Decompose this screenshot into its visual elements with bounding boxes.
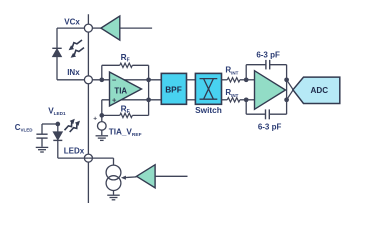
- photodiode: [52, 47, 61, 49]
- junction V_LED node: [55, 122, 60, 127]
- wire photodiode branch vertical lower: [56, 56, 58, 79]
- wire switch to RINT top: [222, 79, 228, 81]
- block BPF: [161, 73, 186, 104]
- ground of current source: [107, 194, 120, 196]
- capacitor 6.3pF top: [265, 60, 267, 70]
- wire photodiode branch vertical upper: [56, 28, 58, 48]
- op-amp TIA: [110, 72, 142, 106]
- junction integrator bottom left: [244, 97, 249, 102]
- wire RINT bottom to integrator: [240, 99, 255, 101]
- wire VCx node to photodiode branch: [57, 27, 88, 29]
- junction at TIA_VREF node: [99, 113, 104, 118]
- svg-text:BPF: BPF: [165, 85, 182, 95]
- svg-text:TIA: TIA: [114, 86, 127, 95]
- wire bottom cap loop horizontal: [246, 113, 265, 115]
- ground of TIA_VREF: [96, 135, 109, 137]
- wire buffer A2 output arrow to current source: [121, 176, 126, 180]
- wire top cap loop left vertical: [245, 65, 247, 80]
- light arrows out of LED: [65, 122, 72, 130]
- wire C_VLED vertical: [41, 124, 43, 134]
- svg-text:ADC: ADC: [311, 86, 329, 95]
- current source I_LED: [106, 165, 121, 180]
- junction integrator top right: [284, 77, 289, 82]
- wire integrator to ADC cross bottom: [287, 90, 294, 100]
- wire photodiode branch to INx node: [57, 79, 88, 81]
- svg-text:+: +: [93, 116, 97, 123]
- node LEDx: [84, 154, 92, 162]
- svg-text:VCx: VCx: [64, 17, 80, 26]
- ground of C_VLED: [36, 146, 49, 148]
- resistor RF top: [120, 63, 133, 67]
- wire LEDx node to current source: [88, 157, 113, 159]
- wire BPF to switch top: [187, 79, 196, 81]
- buffer A2 (LED driver): [137, 165, 156, 188]
- junction at TIA inverting input: [99, 77, 104, 82]
- buffer A1 (VCx driver): [101, 16, 120, 40]
- wire TIA output vertical: [148, 65, 150, 115]
- capacitor 6.3pF bottom: [265, 109, 267, 119]
- wire TIA noninverting rail to BPF bottom rail: [102, 99, 162, 101]
- op-amp integrator: [255, 71, 286, 110]
- node VCx: [84, 24, 92, 32]
- wire INx node to TIA inverting input / BPF top rail: [88, 79, 161, 81]
- svg-text:6-3 pF: 6-3 pF: [258, 123, 282, 132]
- svg-text:LEDx: LEDx: [64, 146, 85, 155]
- wire C_VLED to ground: [41, 138, 43, 147]
- wire buffer A2 input line: [155, 175, 187, 177]
- junction at TIA output bottom tap: [146, 97, 151, 102]
- junction integrator top left: [244, 77, 249, 82]
- wire buffer A1 output to the right: [120, 27, 152, 29]
- wire integrator to ADC cross top: [287, 80, 294, 90]
- junction at TIA output top tap: [146, 77, 151, 82]
- wire main vertical bus (VCx/INx/LEDx column): [87, 14, 89, 203]
- block Switch: [195, 73, 221, 104]
- svg-text:−: −: [112, 76, 117, 85]
- resistor RINT top: [227, 78, 240, 82]
- wire VCx node to buffer A1 input: [88, 27, 101, 29]
- resistor RINT bottom: [227, 98, 240, 102]
- wire TIA top feedback horizontal: [102, 64, 120, 66]
- svg-text:INx: INx: [67, 68, 80, 77]
- svg-text:6-3 pF: 6-3 pF: [256, 50, 280, 59]
- svg-text:Switch: Switch: [195, 105, 222, 115]
- junction integrator bottom right: [284, 97, 289, 102]
- light arrows into photodiode: [72, 40, 82, 47]
- wire switch to RINT bottom: [222, 99, 228, 101]
- wire V_LED node to LED: [57, 124, 59, 132]
- wire TIA bottom feedback horizontal: [102, 114, 120, 116]
- LED D1: [53, 132, 62, 140]
- wire integrator output vertical: [286, 65, 288, 115]
- capacitor C_VLED: [36, 133, 47, 135]
- wire bottom cap loop left vertical: [245, 100, 247, 114]
- wire top cap loop horizontal: [246, 64, 266, 66]
- wire TIA top feedback left vertical: [101, 65, 103, 80]
- resistor RF bottom: [120, 113, 133, 117]
- node INx: [84, 76, 92, 84]
- svg-text:+: +: [112, 96, 117, 105]
- wire BPF to switch bottom: [187, 99, 196, 101]
- wire RINT top to integrator: [240, 79, 255, 81]
- wire TIA bottom left vertical: [101, 100, 103, 116]
- wire LED to LEDx node: [57, 140, 59, 158]
- wire V_LED node to C_VLED: [42, 123, 58, 125]
- block ADC: [293, 77, 340, 103]
